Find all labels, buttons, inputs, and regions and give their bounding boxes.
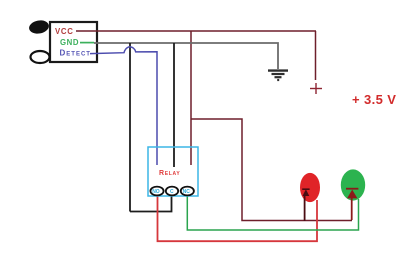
wire battery positive drop	[315, 31, 317, 80]
svg-text:C: C	[170, 189, 174, 195]
wire GND short green stub	[80, 42, 94, 44]
LED D1 red body	[300, 173, 320, 202]
wire VCC branch down to relay coil	[190, 31, 192, 165]
svg-text:Detect: Detect	[60, 49, 91, 58]
LED D1 anode lead	[304, 195, 306, 221]
ground symbol	[268, 71, 288, 80]
battery + terminal symbol	[310, 83, 322, 94]
LED D2 anode lead	[351, 198, 353, 220]
wire GND branch down (left vertical)	[129, 43, 131, 212]
relay pin NC	[181, 187, 194, 196]
relay pin NO	[150, 187, 163, 196]
wire bottom run to relay C pin	[130, 196, 172, 212]
wire VCC branch to LED anode rail	[191, 119, 352, 221]
wire relay NC to green LED cathode (green)	[187, 195, 358, 230]
svg-text:NO: NO	[152, 189, 160, 195]
wire relay NO to red LED cathode (bright red)	[158, 195, 318, 241]
wire VCC rail (maroon)	[76, 30, 316, 32]
relay pin C	[166, 187, 178, 196]
relay box U1	[148, 147, 198, 196]
wire Detect (blue) with hop to relay	[90, 47, 157, 165]
sensor module body	[50, 22, 97, 62]
LED D2 green body	[341, 169, 365, 200]
LED D2 diode symbol	[346, 188, 358, 199]
svg-text:NC: NC	[183, 189, 191, 195]
sensor lens (filled ellipse)	[28, 19, 50, 35]
svg-text:GND: GND	[60, 38, 79, 47]
wire GND rail	[94, 43, 278, 69]
svg-text:VCC: VCC	[55, 27, 74, 36]
svg-text:Relay: Relay	[159, 170, 180, 177]
LED D1 diode symbol	[302, 188, 309, 196]
wire GND branch into relay top	[173, 43, 175, 167]
sensor lens (open ellipse)	[31, 51, 50, 63]
svg-text:+ 3.5 V: + 3.5 V	[352, 92, 396, 107]
